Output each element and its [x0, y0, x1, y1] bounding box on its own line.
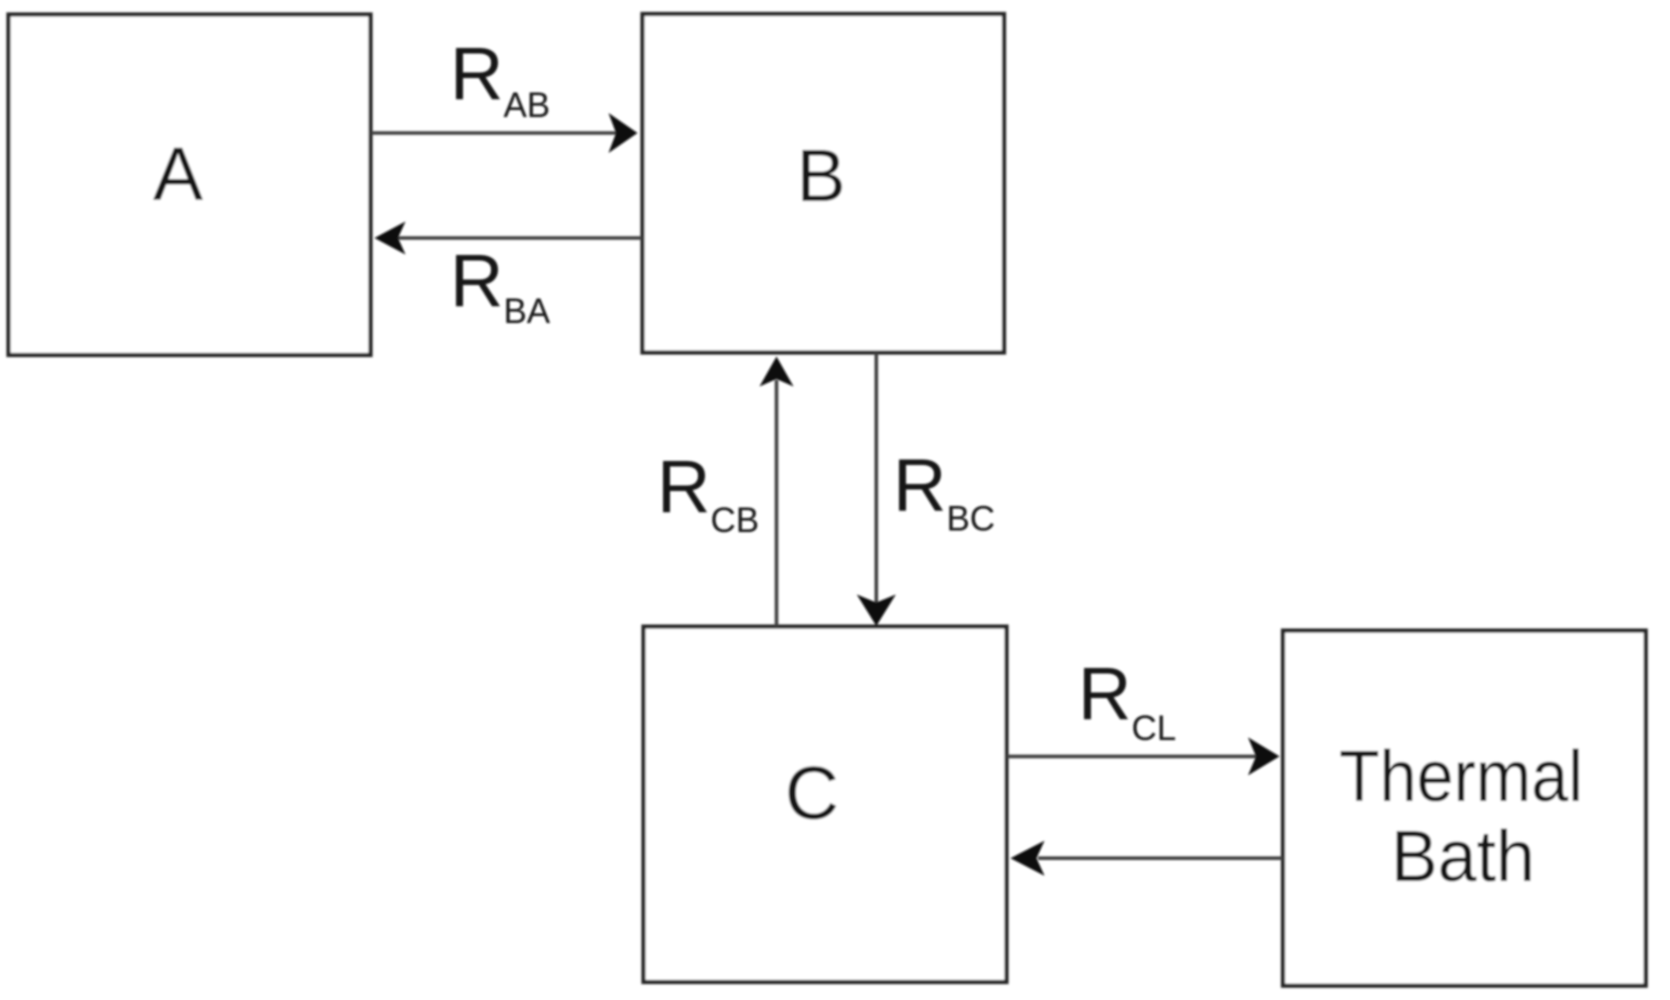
svg-text:Thermal: Thermal: [1339, 737, 1583, 817]
wire A to B (rate R_AB): [371, 131, 616, 135]
svg-text:A: A: [153, 132, 203, 216]
svg-text:RBC: RBC: [893, 444, 995, 539]
arrowhead into C: [1011, 841, 1045, 876]
svg-text:C: C: [785, 751, 839, 835]
svg-text:RBA: RBA: [450, 239, 551, 331]
svg-text:RCL: RCL: [1078, 652, 1176, 748]
wire Thermal Bath to C (return): [1038, 856, 1283, 860]
box C: [644, 627, 1007, 982]
wire C to B (rate R_CB): [775, 380, 779, 627]
arrowhead into B: [609, 113, 638, 153]
arrowhead into A: [375, 222, 406, 255]
arrowhead into C: [857, 595, 896, 627]
arrowhead into B: [760, 357, 794, 387]
svg-text:RCB: RCB: [657, 445, 759, 540]
svg-text:B: B: [796, 134, 845, 217]
svg-text:RAB: RAB: [450, 32, 550, 125]
arrowhead into Thermal Bath: [1248, 737, 1280, 775]
svg-text:Bath: Bath: [1391, 817, 1535, 897]
wire B to C (rate R_BC): [874, 353, 878, 604]
box A: [9, 15, 371, 356]
wire B to A (rate R_BA): [398, 236, 643, 240]
box Thermal Bath: [1283, 631, 1646, 986]
wire C to Thermal Bath (rate R_CL): [1007, 755, 1258, 759]
box B: [643, 14, 1005, 353]
